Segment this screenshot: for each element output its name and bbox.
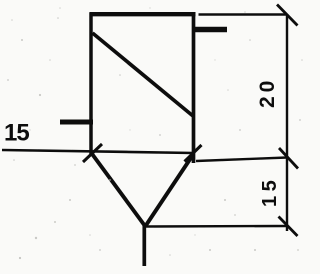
outlet stub right <box>193 27 227 33</box>
extension line middle right <box>196 158 287 162</box>
tick right corner <box>185 145 202 162</box>
inlet stub left <box>60 120 93 125</box>
bottom outlet stub <box>142 224 146 266</box>
tick bottom of vertical dimension <box>279 217 298 237</box>
tick middle of vertical dimension <box>279 148 298 169</box>
funnel right wall <box>146 154 194 226</box>
svg-text:15: 15 <box>259 176 281 207</box>
dimension line horizontal left <box>2 150 194 153</box>
extension line bottom <box>146 225 287 228</box>
svg-text:20: 20 <box>256 77 279 108</box>
tick left corner <box>83 144 102 162</box>
dimension line vertical right <box>286 14 288 231</box>
svg-text:15: 15 <box>4 120 29 147</box>
extension line top right <box>199 13 288 16</box>
tick top of vertical dimension <box>277 5 298 26</box>
vessel left edge <box>89 13 93 155</box>
funnel left wall <box>91 153 145 227</box>
vessel top edge <box>90 12 196 16</box>
internal diagonal baffle <box>93 33 194 116</box>
vessel right edge <box>192 13 196 164</box>
